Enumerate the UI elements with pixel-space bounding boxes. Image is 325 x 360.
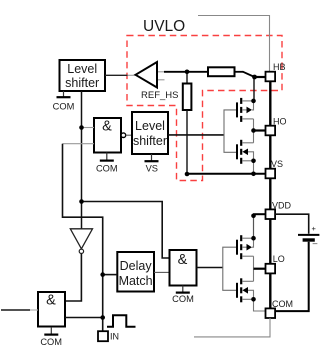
ground COM (under U3) xyxy=(96,153,118,174)
wire VDD pin to Q3 xyxy=(253,213,266,215)
ground VS (under U4) xyxy=(145,154,159,174)
wire U4 output to HO gate tee xyxy=(168,134,224,136)
switch S1 blade xyxy=(243,72,255,77)
svg-text:&: & xyxy=(178,252,188,268)
level shifter U1 (high side, left) xyxy=(60,60,106,91)
svg-text:LO: LO xyxy=(273,254,285,264)
node U7 output / IN xyxy=(100,315,105,320)
and gate U7 (input) xyxy=(38,292,65,327)
svg-text:IN: IN xyxy=(110,332,119,342)
node VS rail / Q2 source xyxy=(251,172,256,177)
wire U8 input xyxy=(103,274,118,276)
node VDD corner xyxy=(251,214,256,219)
wire HB node down to Q1 drain xyxy=(253,77,255,101)
wire U8 output to U6 xyxy=(154,271,170,273)
svg-text:HO: HO xyxy=(273,116,287,126)
wire U3 input 1 xyxy=(82,127,95,129)
svg-text:Level: Level xyxy=(67,62,97,76)
and gate U6 xyxy=(170,250,197,286)
resistor R1 (horizontal) xyxy=(208,67,235,76)
node VS/R2 xyxy=(185,172,190,177)
wire U5 output to U7 xyxy=(65,254,81,301)
svg-text:Level: Level xyxy=(135,119,165,133)
wire line A xyxy=(63,144,103,332)
svg-text:Delay: Delay xyxy=(120,259,153,273)
U3 output bubble xyxy=(121,133,126,138)
pin HO xyxy=(266,126,276,136)
wire line B (U1 bottom vertical) xyxy=(81,91,83,229)
wire to HB pin xyxy=(255,76,266,78)
transistor Q4 (LO low-side FET) xyxy=(237,269,266,311)
node B2 xyxy=(79,199,84,204)
wire VS rail xyxy=(187,173,266,175)
wire HO gate tee xyxy=(224,110,236,152)
ground COM (under U7) xyxy=(40,327,62,347)
svg-text:shifter: shifter xyxy=(65,76,99,90)
svg-text:COM: COM xyxy=(53,102,75,112)
wire HO node to pin xyxy=(254,129,266,131)
svg-text:VS: VS xyxy=(271,159,283,169)
wire R1 to switch xyxy=(235,71,244,73)
pin IN square xyxy=(98,331,108,341)
input pulse symbol xyxy=(107,315,136,327)
svg-text:–: – xyxy=(313,238,318,248)
wire U7 input from left xyxy=(1,309,30,311)
pin VS xyxy=(266,169,276,179)
comparator input stub + xyxy=(158,71,165,73)
resistor R2 (vertical) xyxy=(183,84,192,111)
svg-text:Match: Match xyxy=(119,274,153,288)
svg-text:shifter: shifter xyxy=(133,134,167,148)
node HB junction xyxy=(252,75,257,80)
battery BT1 xyxy=(298,224,319,248)
node Q1 drain xyxy=(251,99,256,104)
svg-text:&: & xyxy=(46,293,56,309)
and gate U3 xyxy=(94,118,121,153)
transistor Q2 (HO low-side FET) xyxy=(237,131,254,174)
wire branch B2 to U6 xyxy=(82,202,170,259)
comparator input stub - xyxy=(158,79,165,81)
U5 output bubble xyxy=(79,249,83,253)
wire U6 output to LO gate tee xyxy=(197,267,223,269)
IC edge bus xyxy=(269,81,271,308)
wire top loop to HB xyxy=(198,16,270,72)
wire R2 bottom to VS rail xyxy=(186,110,188,174)
ground COM (under U6) xyxy=(172,286,194,305)
pin HB xyxy=(266,72,276,82)
node Q4 source/body xyxy=(251,297,256,302)
svg-text:&: & xyxy=(102,119,112,135)
svg-text:UVLO: UVLO xyxy=(143,18,185,35)
wire battery to COM pin xyxy=(275,242,309,311)
inverter U5 (points down) xyxy=(70,229,92,249)
svg-text:VDD: VDD xyxy=(272,200,292,210)
UVLO dashed boundary xyxy=(127,36,282,181)
wire comparator to R1 xyxy=(164,71,208,73)
svg-text:REF_HS: REF_HS xyxy=(141,90,178,101)
node U8 input xyxy=(100,272,105,277)
svg-text:HB: HB xyxy=(273,62,286,72)
node comparator/R2 junction xyxy=(185,70,190,75)
svg-text:COM: COM xyxy=(40,337,62,347)
svg-text:+: + xyxy=(312,224,317,233)
transistor Q3 (LO high-side FET) xyxy=(237,235,254,269)
delay match block U8 xyxy=(117,252,154,292)
svg-text:COM: COM xyxy=(172,294,194,304)
node Q3 drain xyxy=(251,236,256,241)
svg-text:VS: VS xyxy=(146,164,158,174)
svg-text:COM: COM xyxy=(96,163,118,173)
pin COM xyxy=(266,308,276,318)
pin VDD xyxy=(266,209,276,219)
node B1 xyxy=(79,125,84,130)
wire VDD to battery xyxy=(275,214,309,234)
wire U3 input 2 xyxy=(63,143,95,145)
wire U7 output xyxy=(65,317,103,319)
level shifter U4 (output stage driver) xyxy=(132,112,168,154)
pin LO xyxy=(266,264,276,274)
node Q2 source/body xyxy=(251,159,256,164)
wire LO node to pin xyxy=(254,268,266,270)
comparator U2 (UVLO, points left) xyxy=(136,62,158,88)
transistor Q1 (HO high-side FET) xyxy=(237,98,254,131)
node HO xyxy=(251,128,256,133)
wire U1 to comparator xyxy=(105,74,128,76)
svg-text:COM: COM xyxy=(272,299,293,309)
wire junction down to R2 xyxy=(186,72,188,84)
wire U3 output to U4 xyxy=(126,134,132,136)
ground COM (under U1) xyxy=(53,91,75,112)
wire COM return (thin) xyxy=(194,318,270,337)
wire LO gate tee xyxy=(223,247,237,290)
